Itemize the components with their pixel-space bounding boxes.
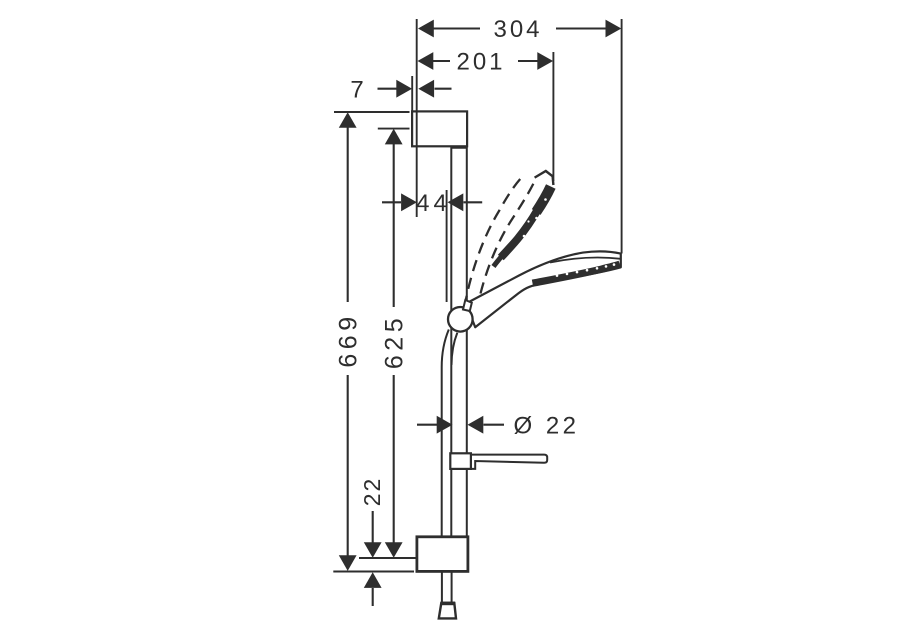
svg-text:304: 304 xyxy=(493,16,542,43)
svg-text:201: 201 xyxy=(456,49,505,76)
svg-text:669: 669 xyxy=(335,312,363,367)
svg-text:7: 7 xyxy=(350,77,366,104)
svg-text:22: 22 xyxy=(359,477,385,507)
svg-text:44: 44 xyxy=(416,190,451,217)
svg-text:625: 625 xyxy=(381,314,409,369)
svg-text:Ø 22: Ø 22 xyxy=(513,412,579,439)
